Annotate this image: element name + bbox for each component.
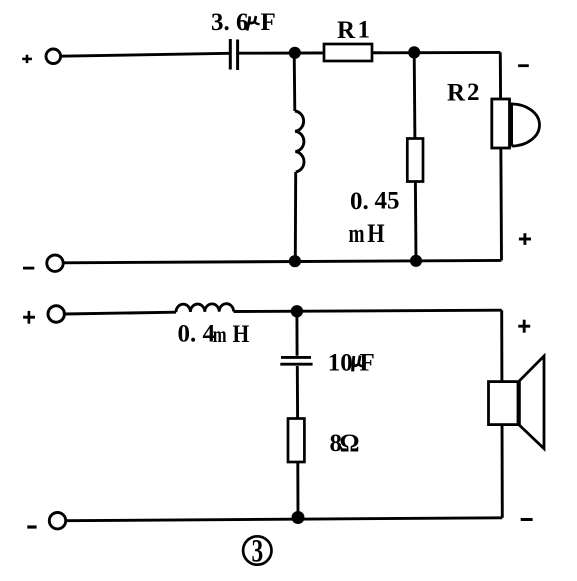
svg-text:6: 6 (236, 9, 249, 36)
svg-text:0.: 0. (178, 321, 197, 348)
svg-text:0.: 0. (350, 188, 369, 215)
svg-text:m: m (349, 219, 365, 247)
svg-text:Ω: Ω (340, 430, 360, 457)
svg-text:45: 45 (375, 188, 400, 215)
svg-text:F: F (360, 350, 375, 377)
svg-text:R: R (447, 80, 466, 107)
svg-text:1: 1 (358, 17, 371, 44)
svg-text:H: H (367, 220, 385, 249)
svg-text:m: m (213, 322, 227, 347)
svg-text:H: H (233, 321, 250, 349)
svg-text:2: 2 (467, 79, 480, 106)
svg-text:R: R (337, 17, 356, 44)
svg-text:3: 3 (252, 534, 264, 570)
svg-text:3.: 3. (211, 9, 230, 36)
svg-text:F: F (261, 9, 276, 36)
svg-text:10: 10 (328, 350, 353, 377)
